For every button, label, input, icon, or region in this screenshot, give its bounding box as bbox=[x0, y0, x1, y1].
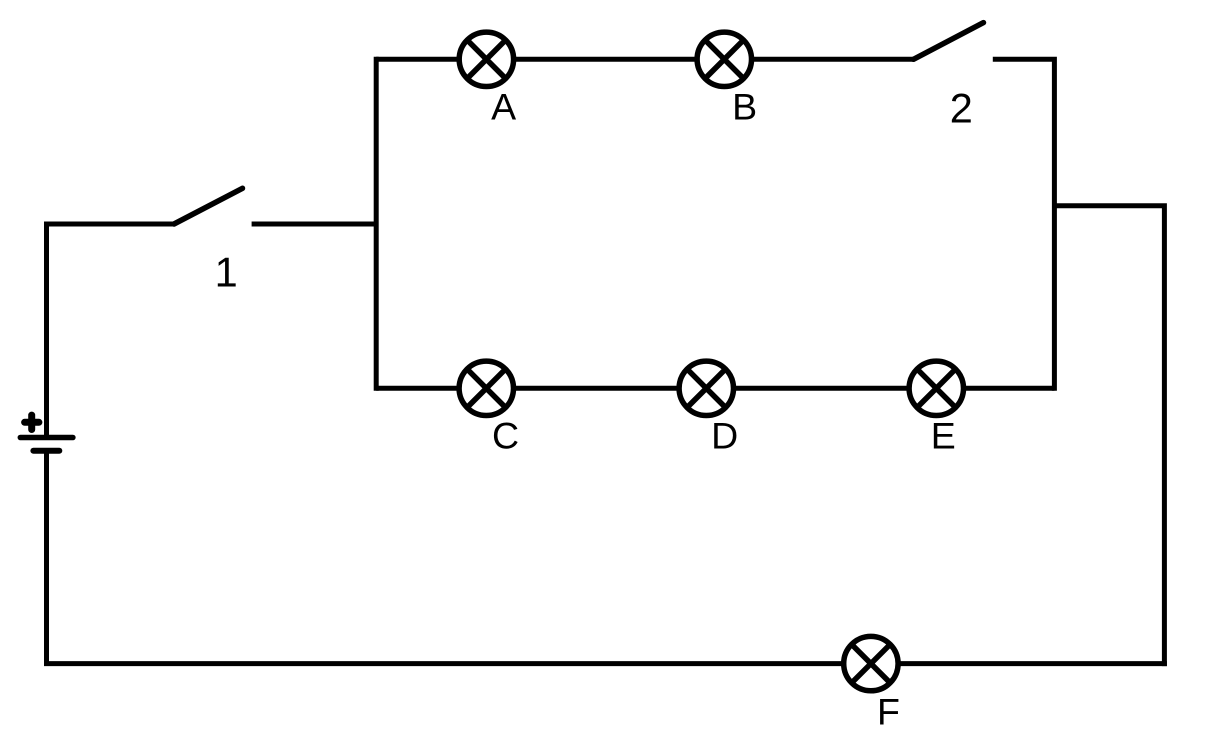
svg-text:B: B bbox=[732, 86, 757, 128]
wire: branch horizontal + far right vertical bbox=[1054, 206, 1164, 666]
lamp A bbox=[459, 32, 513, 86]
battery plus sign bbox=[25, 415, 39, 429]
svg-text:E: E bbox=[931, 415, 956, 457]
lamp D bbox=[679, 361, 733, 415]
switch 2 lever bbox=[914, 23, 984, 60]
lamp B bbox=[697, 32, 751, 86]
lamp E bbox=[909, 361, 963, 415]
wire: junction vertical (top branch to middle branch) bbox=[374, 57, 379, 391]
svg-text:F: F bbox=[877, 691, 900, 732]
switch 1 lever bbox=[174, 188, 243, 224]
svg-text:A: A bbox=[491, 86, 516, 128]
battery negative plate (short) bbox=[33, 448, 59, 454]
svg-text:C: C bbox=[492, 415, 519, 457]
wire: top branch horizontal bbox=[376, 57, 913, 62]
wire: middle branch horizontal bbox=[376, 386, 1054, 391]
wire: switch 2 contact + right mid vertical down bbox=[993, 59, 1055, 391]
svg-text:D: D bbox=[711, 415, 738, 457]
wire: left vertical top + switch 1 input horizontal bbox=[47, 224, 175, 438]
wire: switch 1 output to junction bbox=[252, 222, 377, 227]
wire: left vertical bottom + bottom horizontal bbox=[47, 451, 1167, 664]
svg-text:1: 1 bbox=[215, 249, 238, 296]
lamp F bbox=[844, 636, 898, 690]
battery positive plate (long) bbox=[20, 435, 73, 441]
lamp C bbox=[459, 361, 513, 415]
svg-text:2: 2 bbox=[950, 84, 973, 131]
